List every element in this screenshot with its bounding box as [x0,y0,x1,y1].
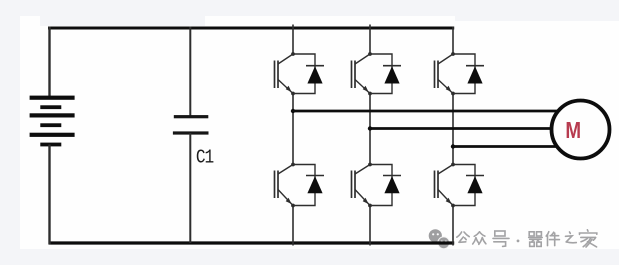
watermark logo (chat bubbles) [429,229,450,249]
wire leg 1 midpoint (phase node) [292,94,294,165]
wire capacitor bottom lead [189,133,191,243]
wire leg 2 upper stub (bus to collector) [369,25,371,55]
wire leg 3 midpoint (phase node) [452,94,454,165]
wire leg 1 lower stub (emitter to bus) [292,206,294,246]
watermark char 众 [473,232,486,245]
transistor Q3 (IGBT) [435,52,455,95]
diode D3 (anti-parallel) [453,54,484,94]
watermark char 件 [546,232,559,246]
watermark char 之 [566,232,577,243]
diode D1 (anti-parallel) [293,54,324,94]
wire phase U to motor [293,110,560,113]
wire phase V to motor [370,127,560,130]
watermark middle dot [517,240,520,243]
wire capacitor top lead [189,27,191,117]
wire battery negative lead [48,145,50,245]
svg-text:M: M [565,118,581,143]
wire leg 3 upper stub (bus to collector) [452,27,454,54]
diode D6 (anti-parallel) [453,165,484,206]
node phase W junction [451,144,455,148]
transistor Q2 (IGBT) [352,52,372,95]
wire leg 2 midpoint (phase node) [369,94,371,165]
wire phase W to motor [453,145,560,148]
diode D4 (anti-parallel) [293,165,324,206]
transistor Q4 (IGBT) [275,163,295,208]
wire leg 2 lower stub (emitter to bus) [369,206,371,246]
diode D2 (anti-parallel) [370,54,401,94]
top DC bus (+) [48,27,454,30]
transistor Q1 (IGBT) [275,52,295,95]
battery B1 [30,96,75,147]
capacitor C1 [173,115,209,134]
bottom DC bus (-) [49,241,455,244]
wire battery positive lead [48,27,50,98]
transistor Q5 (IGBT) [352,163,372,208]
watermark char 家 [580,230,597,247]
svg-text:C1: C1 [196,147,214,169]
node phase U junction [291,109,295,113]
diode D5 (anti-parallel) [370,165,401,206]
watermark char 号 [493,231,509,246]
wire leg 1 upper stub (bus to collector) [292,25,294,55]
node phase V junction [368,126,372,130]
motor M [552,101,610,159]
wire leg 3 lower stub (emitter to bus) [452,206,454,246]
watermark char 公 [457,232,469,242]
watermark char 器 [529,232,543,247]
transistor Q6 (IGBT) [435,163,455,208]
